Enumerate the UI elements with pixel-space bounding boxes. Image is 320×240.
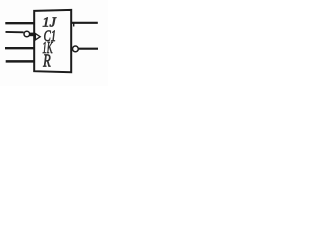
svg-text:R: R <box>42 51 50 71</box>
